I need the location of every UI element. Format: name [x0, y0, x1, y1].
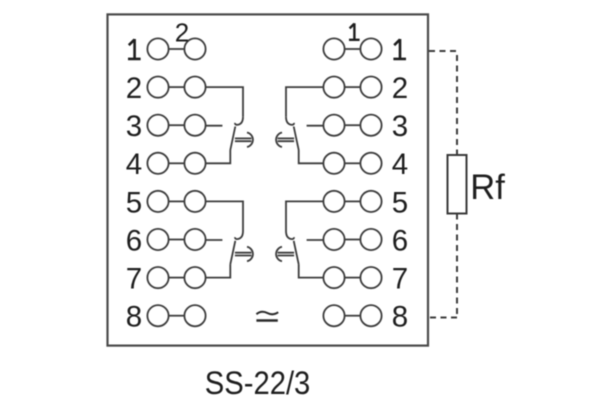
terminal 5 right outer circle: [360, 191, 381, 212]
terminal 4 right inner circle: [323, 153, 344, 174]
terminal label 1 (right): [393, 39, 406, 59]
contact K3 actuation arrow head: [247, 247, 253, 261]
terminal 2 left inner circle: [184, 77, 205, 98]
contact K4 wire to terminal 7 right: [299, 264, 324, 277]
contact K2 movable arm: [294, 127, 299, 151]
rectifier symbol bar: [256, 319, 277, 321]
wire terminal 1 right pair: [345, 48, 361, 50]
contact K3 wire from terminal 5 left: [206, 201, 243, 231]
terminal 2 right inner circle: [323, 77, 344, 98]
wire terminal 4 right pair: [345, 162, 361, 164]
contact K1 wire to terminal 4 left: [206, 150, 231, 163]
terminal 1 left inner circle: [184, 38, 205, 59]
contact K1 actuation arrow head: [247, 133, 253, 148]
wire terminal 7 right pair: [345, 277, 361, 279]
wire terminal 7 left pair: [169, 277, 185, 279]
svg-text:3: 3: [392, 110, 408, 143]
terminal 6 left inner circle: [184, 229, 205, 250]
contact K1 actuation arrow shaft: [235, 138, 252, 141]
terminal 7 right inner circle: [323, 267, 344, 288]
svg-text:Rf: Rf: [470, 168, 505, 207]
contact K4 actuation arrow shaft: [278, 253, 295, 256]
terminal 8 left outer circle: [147, 305, 168, 326]
svg-text:2: 2: [392, 72, 408, 105]
dashed wire from Rf bottom: [456, 214, 458, 318]
contact K1 fixed contact hook: [235, 117, 243, 125]
contact K4 movable arm: [294, 241, 299, 264]
terminal 3 left inner circle: [184, 115, 205, 136]
terminal 5 right inner circle: [323, 191, 344, 212]
terminal 2 right outer circle: [360, 77, 381, 98]
svg-text:7: 7: [392, 263, 408, 296]
wire terminal 6 left pair: [169, 239, 185, 241]
terminal 1 right inner circle: [323, 38, 344, 59]
contact K4 wire from terminal 5 right: [286, 201, 323, 231]
terminal 8 right outer circle: [360, 305, 381, 326]
terminal 5 left outer circle: [147, 191, 168, 212]
contact K2 actuation arrow head: [276, 133, 282, 148]
terminal 6 left outer circle: [147, 229, 168, 250]
contact K1 wire from terminal 2 left: [206, 87, 243, 117]
terminal 6 right outer circle: [360, 229, 381, 250]
contact K2 wire from terminal 2 right: [286, 87, 323, 117]
terminal 3 right outer circle: [360, 115, 381, 136]
wire terminal 5 left pair: [169, 200, 185, 202]
svg-text:2: 2: [126, 72, 142, 105]
wire terminal 8 right pair: [345, 315, 361, 317]
svg-text:6: 6: [392, 224, 408, 257]
contact K1 stub from terminal 3 left: [206, 125, 223, 127]
wire terminal 2 left pair: [169, 86, 185, 88]
contact K3 stub from terminal 6 left: [206, 239, 223, 241]
contact K1 movable arm: [230, 127, 235, 151]
svg-text:5: 5: [126, 186, 142, 219]
contact K3 wire to terminal 7 left: [206, 264, 231, 277]
resistor Rf: [448, 155, 467, 214]
svg-text:7: 7: [126, 263, 142, 296]
relay case outline: [108, 14, 429, 345]
terminal 7 right outer circle: [360, 267, 381, 288]
wire terminal 8 left pair: [169, 315, 185, 317]
svg-text:4: 4: [126, 148, 142, 181]
contact K4 stub from terminal 6 right: [307, 239, 324, 241]
coil terminal label 1: [349, 23, 360, 40]
terminal 7 left outer circle: [147, 267, 168, 288]
svg-text:8: 8: [392, 301, 408, 334]
dashed wire to terminal 8 right: [429, 317, 457, 319]
contact K3 fixed contact hook: [235, 231, 243, 239]
svg-text:4: 4: [392, 148, 408, 181]
svg-text:3: 3: [126, 110, 142, 143]
contact K4 fixed contact hook: [286, 231, 294, 239]
terminal 6 right inner circle: [323, 229, 344, 250]
contact K2 wire to terminal 4 right: [299, 150, 324, 163]
terminal 4 left inner circle: [184, 153, 205, 174]
svg-text:8: 8: [126, 301, 142, 334]
terminal 4 left outer circle: [147, 153, 168, 174]
contact K3 actuation arrow shaft: [235, 253, 252, 256]
terminal 4 right outer circle: [360, 153, 381, 174]
rectifier symbol tilde: [256, 312, 278, 315]
svg-text:2: 2: [175, 17, 189, 47]
terminal 8 right inner circle: [323, 305, 344, 326]
terminal label 1 (left): [128, 39, 141, 59]
terminal 1 left outer circle: [147, 38, 168, 59]
contact K3 movable arm: [230, 241, 235, 264]
terminal 7 left inner circle: [184, 267, 205, 288]
wire terminal 4 left pair: [169, 162, 185, 164]
svg-text:5: 5: [392, 186, 408, 219]
wire terminal 5 right pair: [345, 200, 361, 202]
terminal 3 left outer circle: [147, 115, 168, 136]
terminal 2 left outer circle: [147, 77, 168, 98]
wire terminal 6 right pair: [345, 239, 361, 241]
wire terminal 2 right pair: [345, 86, 361, 88]
dashed wire down to Rf top: [456, 55, 458, 155]
contact K4 actuation arrow head: [276, 247, 282, 261]
contact K2 fixed contact hook: [286, 117, 294, 125]
wire terminal 1 left pair: [169, 48, 185, 50]
contact K2 actuation arrow shaft: [278, 138, 295, 141]
wire terminal 3 left pair: [169, 124, 185, 126]
terminal 8 left inner circle: [184, 305, 205, 326]
wire terminal 3 right pair: [345, 124, 361, 126]
dashed wire from terminal 1 right to Rf: [429, 50, 457, 52]
terminal 1 right outer circle: [360, 38, 381, 59]
terminal 3 right inner circle: [323, 115, 344, 136]
svg-text:6: 6: [126, 224, 142, 257]
svg-text:SS-22/3: SS-22/3: [205, 365, 310, 400]
terminal 5 left inner circle: [184, 191, 205, 212]
contact K2 stub from terminal 3 right: [307, 125, 324, 127]
